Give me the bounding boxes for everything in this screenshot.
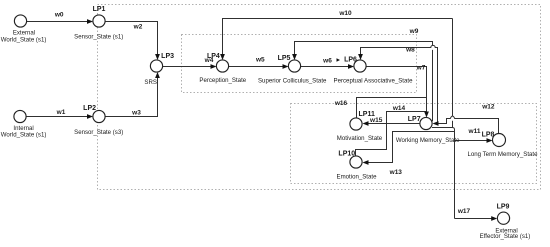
svg-text:w17: w17	[457, 208, 471, 215]
svg-text:w8: w8	[405, 47, 415, 54]
svg-text:Working Memory_State: Working Memory_State	[396, 137, 460, 144]
svg-text:w3: w3	[131, 110, 141, 117]
svg-text:w13: w13	[389, 169, 403, 176]
svg-text:w7: w7	[416, 65, 426, 72]
svg-text:External: External	[13, 29, 35, 36]
svg-text:LP3: LP3	[161, 53, 174, 60]
svg-text:w1: w1	[56, 109, 66, 116]
svg-text:w14: w14	[392, 105, 406, 112]
svg-text:LP2: LP2	[83, 105, 96, 112]
svg-text:w6: w6	[322, 58, 332, 65]
svg-text:LP6: LP6	[344, 56, 357, 63]
svg-text:LP1: LP1	[93, 6, 106, 13]
svg-text:w5: w5	[255, 57, 265, 64]
svg-text:World_State (s1): World_State (s1)	[1, 132, 47, 139]
svg-text:SRS: SRS	[144, 79, 157, 86]
svg-text:LP5: LP5	[278, 55, 291, 62]
svg-text:LP8: LP8	[482, 131, 495, 138]
svg-text:Perceptual Associative_State: Perceptual Associative_State	[334, 78, 414, 85]
svg-text:w12: w12	[481, 104, 495, 111]
svg-text:World_State (s1): World_State (s1)	[1, 36, 47, 43]
svg-text:Sensor_State (s3): Sensor_State (s3)	[74, 129, 123, 136]
svg-text:w11: w11	[468, 128, 481, 135]
svg-text:w15: w15	[369, 117, 383, 124]
svg-text:w9: w9	[409, 28, 419, 35]
svg-text:Emotion_State: Emotion_State	[337, 173, 378, 180]
svg-text:w4: w4	[204, 57, 214, 64]
svg-text:w16: w16	[334, 100, 348, 107]
svg-text:Perception_State: Perception_State	[199, 77, 246, 84]
svg-text:Superior Colliculus_State: Superior Colliculus_State	[258, 78, 327, 85]
svg-text:w10: w10	[338, 10, 352, 17]
svg-text:w2: w2	[133, 24, 143, 31]
svg-text:LP10: LP10	[338, 151, 355, 158]
svg-text:w0: w0	[54, 12, 64, 19]
svg-text:Sensor_State (s1): Sensor_State (s1)	[74, 34, 123, 41]
svg-text:Effector_State (s1): Effector_State (s1)	[480, 233, 531, 240]
svg-text:Motivation_State: Motivation_State	[337, 135, 383, 142]
svg-text:LP7: LP7	[408, 116, 421, 123]
svg-text:Long Term Memory_State: Long Term Memory_State	[468, 151, 539, 158]
svg-text:LP9: LP9	[497, 203, 510, 210]
